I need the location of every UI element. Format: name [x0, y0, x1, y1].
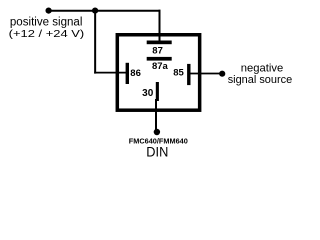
pin 86 coil contact bar: [126, 63, 129, 84]
node: positive supply terminal dot: [46, 8, 52, 14]
svg-text:(+12 / +24 V): (+12 / +24 V): [9, 28, 85, 40]
wire: pin 85 out to negative signal source: [190, 73, 220, 75]
wire: drop from rail down to pin 87: [159, 10, 161, 43]
node: junction dot on positive rail: [92, 8, 98, 14]
svg-text:87a: 87a: [152, 61, 169, 72]
svg-text:negative: negative: [241, 63, 283, 75]
svg-text:86: 86: [130, 68, 141, 79]
pin 87 contact bar: [147, 41, 172, 45]
node: DIN output terminal dot: [154, 129, 160, 135]
node: negative signal source terminal dot: [219, 71, 225, 77]
svg-text:signal source: signal source: [228, 74, 293, 86]
svg-text:87: 87: [152, 46, 163, 57]
svg-text:30: 30: [142, 88, 154, 99]
wire: horizontal into pin 86: [94, 72, 128, 74]
pin 87a contact bar: [147, 57, 172, 61]
svg-text:DIN: DIN: [146, 144, 168, 159]
svg-text:positive signal: positive signal: [10, 17, 83, 29]
wire: positive supply rail (top horizontal): [48, 10, 161, 12]
pin 30 contact bar: [156, 82, 159, 101]
wire: branch down from junction toward pin 86: [94, 10, 96, 74]
wire: pin 30 down to DIN output terminal: [155, 99, 157, 131]
pin 85 coil contact bar: [187, 64, 190, 85]
relay body (DIN relay box): [117, 35, 199, 110]
svg-text:85: 85: [173, 67, 184, 78]
